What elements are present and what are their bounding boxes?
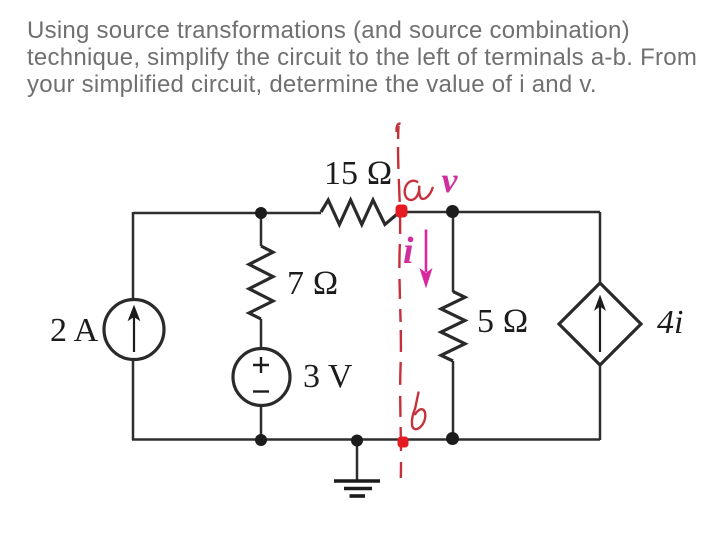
voltage source V1 3V (circle with plus minus) <box>233 349 290 406</box>
wire left edge upper <box>132 212 135 299</box>
wire right edge lower <box>599 365 602 440</box>
node dot ground junction <box>351 435 363 447</box>
resistor 5 ohm (vertical zigzag) <box>441 292 465 362</box>
node dot bottom 5-ohm junction <box>446 432 459 445</box>
wire 7-ohm branch top <box>260 213 263 246</box>
svg-text:3 V: 3 V <box>303 358 353 395</box>
terminal b (red marker) <box>398 437 409 448</box>
problem statement text <box>27 17 697 98</box>
arrow i direction (magenta down arrow) <box>425 230 428 273</box>
cut line a-b (red hand-drawn dashed) <box>398 126 401 478</box>
node dot bottom 3V junction <box>255 434 267 446</box>
svg-text:7 Ω: 7 Ω <box>287 265 339 302</box>
label b (handwritten) <box>412 393 425 430</box>
wire 5-ohm branch bottom <box>452 361 455 439</box>
svg-text:4i: 4i <box>657 304 683 341</box>
wire right edge upper <box>599 212 602 284</box>
node dot top 5-ohm junction <box>446 205 459 218</box>
svg-text:15 Ω: 15 Ω <box>324 155 393 192</box>
wire left edge lower <box>132 360 135 440</box>
wire 5-ohm branch top <box>452 212 455 292</box>
wire 7-ohm to 3V source <box>260 319 263 348</box>
ground <box>356 440 359 480</box>
svg-text:i: i <box>403 230 414 272</box>
dependent source 4i (diamond with up arrow) <box>559 283 641 365</box>
wire bottom <box>132 438 600 441</box>
label a (handwritten) <box>405 181 433 200</box>
current source I1 2A (circle with up arrow) <box>104 300 164 360</box>
wire top-right: terminal a to top-right corner <box>400 211 600 214</box>
wire 3V source to bottom <box>260 406 263 440</box>
terminal a (red marker) <box>396 205 408 218</box>
svg-text:v: v <box>442 160 459 200</box>
resistor 15 ohm (horizontal zigzag) <box>321 200 399 225</box>
svg-text:2 A: 2 A <box>50 312 99 349</box>
wire top-left: left node to 15-ohm resistor <box>133 212 321 215</box>
svg-text:5 Ω: 5 Ω <box>477 303 529 340</box>
resistor 7 ohm (vertical zigzag) <box>249 246 273 319</box>
node dot top 7-ohm junction <box>255 207 267 219</box>
